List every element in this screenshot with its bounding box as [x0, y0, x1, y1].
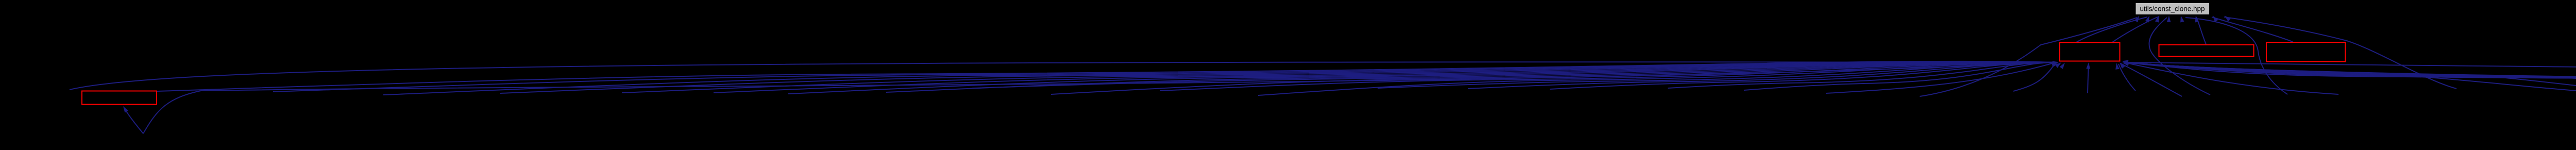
node: current file utils/const_clone.hpp (top node)	[2136, 3, 2210, 15]
arrowhead into box A bottom-right corner 2	[2115, 63, 2120, 70]
wire edge from bottom node m14 to box A	[2124, 62, 2576, 92]
wire edge from bottom node n13 to box A	[1258, 62, 2056, 95]
arrowhead into box A bottom-left corner 2	[2060, 63, 2065, 69]
arrowhead into box A left edge 2	[2052, 63, 2059, 67]
wire edge from bottom node n12 to box A	[1160, 62, 2056, 91]
svg-text:utils/const_clone.hpp: utils/const_clone.hpp	[2140, 5, 2205, 13]
wire edge from node n22 to left box L	[125, 109, 143, 134]
wire edge from bottom node n7 to box A	[714, 62, 2056, 93]
wire edge from bottom node n15 to box A	[1468, 62, 2056, 89]
arrowhead into top node #8	[2225, 16, 2231, 22]
arrowhead into top node #6	[2195, 16, 2199, 23]
wire edge from bottom node n9 to box A	[886, 62, 2056, 92]
wire edge from node n21 to box A bottom-right corner	[2119, 64, 2136, 91]
wire edge from bottom node n3 to box A	[273, 61, 2056, 92]
arrowhead into top node #7	[2213, 16, 2218, 22]
arrowhead into top node #2	[2145, 16, 2149, 23]
arrowhead into box A bottom-left corner	[2055, 62, 2061, 68]
wire edge from bottom node n4 to box A	[383, 61, 2056, 95]
wire edge from bottom node n2 to box A	[157, 61, 2056, 91]
wire edge from bottom node m13 to box A	[2124, 62, 2576, 91]
wire edge from bottom node n14 to box A	[1378, 62, 2056, 88]
wire edge from bottom node n8 to box A	[788, 62, 2056, 94]
wire edge from bottom node m4 to box A	[2124, 62, 2576, 89]
wire edge t5 from node in B-C gap to top node	[2185, 18, 2287, 94]
wire edge t8 from node m1-right over box C to top node	[2224, 17, 2456, 89]
arrowhead into top node #1	[2134, 16, 2139, 23]
arrowhead into box A right edge	[2122, 60, 2129, 64]
arrowhead into box A left edge	[2053, 61, 2059, 65]
arrowhead into box A right edge 2	[2123, 62, 2129, 66]
arrowhead into left box L	[123, 106, 128, 113]
wire edge from bottom node m7 to box A	[2124, 62, 2576, 93]
arrowhead into box A bottom center	[2086, 62, 2090, 69]
wire edge from bottom node n1 to box A	[70, 62, 2056, 90]
wire edge from bottom node n18 to box A	[1744, 62, 2056, 90]
wire edge from bottom node m11 to box A	[2124, 62, 2576, 89]
arrowhead into top node #4	[2167, 16, 2171, 23]
wire edge from bottom node n20 to box A	[2013, 62, 2056, 91]
wire edge t1 from node n20 up to top node	[1920, 18, 2137, 96]
wire edge t6 from box B to top node	[2196, 17, 2206, 44]
wire edge from bottom node m12 to box A	[2124, 62, 2576, 88]
wire edge from bottom node n11 to box A	[1051, 62, 2056, 94]
wire edge from bottom node m5 to box A	[2124, 62, 2576, 92]
node: box C (truncated includer)	[2266, 42, 2345, 62]
wire edge t2 from box A to top node	[2076, 17, 2147, 42]
arrowhead into top node #5	[2180, 16, 2184, 23]
node: box B (truncated includer)	[2159, 45, 2254, 57]
wire edge from bottom node n10 to box A	[972, 62, 2056, 88]
wire edge from bottom node m16 to box A	[2124, 62, 2576, 90]
wire edge from bottom node n16 to box A	[1550, 62, 2056, 89]
wire edge from bottom node n19 to box A	[1826, 62, 2056, 93]
arrowhead into top node #3	[2155, 16, 2159, 23]
wire edge from node n23 to box A bottom-right corner	[2121, 63, 2182, 96]
wire edge from bottom node m1 to box A	[2124, 62, 2338, 94]
wire edge from bottom node n5 to box A	[500, 62, 2056, 93]
wire edge from bottom node m17 to box A	[2124, 62, 2576, 91]
wire edge from bottom node m3 to box A	[2124, 62, 2576, 94]
arrowhead into box A bottom-right corner	[2120, 62, 2125, 69]
wire edge from bottom node m8 to box A	[2124, 62, 2576, 88]
wire edge from bottom node n17 to box A	[1668, 62, 2056, 88]
node: left box L (truncated)	[82, 91, 157, 105]
wire edge t3 from box A to top node	[2112, 17, 2158, 42]
wire edge from node n22 (lower-left) to box A	[143, 62, 2056, 134]
wire edge from node below box A into its bottom	[2088, 64, 2089, 93]
wire edge from bottom node m6 to box A	[2124, 62, 2576, 89]
wire edge from bottom node m18 to box A	[2124, 62, 2576, 91]
node: box A (truncated includer)	[2060, 43, 2120, 61]
wire edge t4 from node in A-B gap to top node	[2149, 18, 2210, 95]
wire edge from bottom node n6 to box A	[622, 62, 2056, 93]
wire edge from bottom node m10 to box A	[2124, 62, 2576, 88]
wire edge from bottom node m2 to box A	[2124, 62, 2576, 91]
wire edge t7 from box C to top node	[2212, 17, 2293, 42]
wire edge from bottom node m9 to box A	[2124, 62, 2576, 88]
wire edge from bottom node m15 to box A	[2124, 62, 2576, 92]
